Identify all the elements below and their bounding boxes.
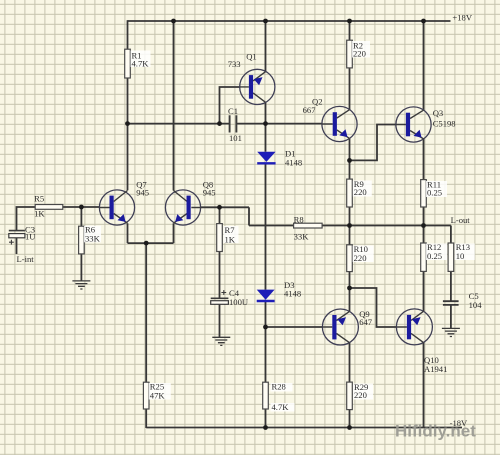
capacitor C5 bbox=[443, 301, 459, 305]
wire -18V bottom rail bbox=[146, 427, 462, 429]
label R25 bbox=[149, 382, 171, 401]
label R10 bbox=[353, 244, 374, 263]
wire R5 right to Q7 base bbox=[63, 206, 100, 208]
wire R6 top bbox=[80, 207, 82, 226]
svg-text:945: 945 bbox=[203, 188, 216, 198]
label C1 bbox=[228, 106, 242, 143]
wire R25 bottom to rail bbox=[145, 409, 147, 428]
wire feedback node jog down bbox=[248, 207, 250, 225]
ground at R6 bbox=[72, 281, 90, 289]
label R9 bbox=[353, 179, 372, 197]
ground at C4 bbox=[212, 337, 230, 345]
svg-text:33K: 33K bbox=[294, 232, 310, 242]
svg-text:647: 647 bbox=[359, 317, 373, 327]
ground at C5 bbox=[442, 328, 460, 336]
svg-text:R28: R28 bbox=[272, 382, 286, 392]
wire Q9 base bbox=[266, 326, 323, 328]
wire R13 bottom to C5 bbox=[450, 271, 452, 301]
svg-text:1K: 1K bbox=[34, 209, 45, 219]
wire rail to Q3 collector bbox=[423, 20, 425, 110]
wire rail to R2 bbox=[349, 20, 351, 40]
wire R12 bottom to Q10 emitter bbox=[423, 271, 425, 311]
wire R10 bottom to Q9 emitter node bbox=[349, 272, 351, 312]
resistor R5 bbox=[35, 205, 63, 210]
svg-text:L-out: L-out bbox=[451, 215, 471, 225]
wire Q10 collector to rail bbox=[423, 343, 425, 429]
label R11 bbox=[426, 180, 447, 198]
wire +18V top rail bbox=[128, 20, 451, 22]
svg-text:1K: 1K bbox=[225, 235, 236, 245]
resistor R29 bbox=[347, 382, 353, 410]
node rail-R28 bbox=[263, 425, 268, 430]
wire emitter join bbox=[128, 242, 174, 244]
label R12 bbox=[426, 242, 447, 261]
wire Q8 base to feedback corner bbox=[201, 206, 249, 208]
svg-text:220: 220 bbox=[354, 187, 367, 197]
svg-text:L-int: L-int bbox=[17, 254, 35, 264]
svg-text:945: 945 bbox=[136, 188, 149, 198]
wire Q2 emitter to R9 bbox=[349, 138, 351, 179]
label Q1 bbox=[228, 52, 257, 70]
wire R29 bottom to rail bbox=[349, 410, 351, 428]
diode D1 bbox=[257, 152, 275, 164]
label C5 bbox=[469, 291, 483, 310]
transistor Q9 bbox=[322, 309, 358, 345]
svg-text:220: 220 bbox=[354, 253, 367, 263]
svg-text:4.7K: 4.7K bbox=[272, 402, 290, 412]
node Q2e-Q3b bbox=[347, 158, 352, 163]
node rail-R29 bbox=[347, 425, 352, 430]
transistor Q8 bbox=[165, 190, 200, 225]
svg-text:220: 220 bbox=[354, 390, 367, 400]
svg-text:0.25: 0.25 bbox=[427, 251, 442, 261]
node Q1-base bbox=[217, 121, 222, 126]
label Q9 bbox=[359, 309, 373, 327]
wire D1 cathode to D3 anode bbox=[265, 163, 267, 289]
wire C1 right to Q2 base bbox=[237, 123, 322, 125]
svg-text:47K: 47K bbox=[150, 391, 166, 401]
svg-text:100U: 100U bbox=[229, 297, 249, 307]
wire R11 bottom to output line bbox=[423, 207, 425, 226]
wire Q8 collector to rail bbox=[173, 20, 175, 190]
wire Q1 base stub bbox=[220, 87, 241, 124]
label R28 bbox=[271, 382, 295, 413]
svg-text:220: 220 bbox=[353, 49, 366, 59]
transistor Q2 bbox=[322, 106, 357, 141]
resistor R8 bbox=[294, 223, 323, 228]
node R5-R6 bbox=[79, 205, 84, 210]
svg-text:733: 733 bbox=[228, 59, 241, 69]
wire R28 bottom to rail bbox=[265, 409, 267, 428]
wire output line left segment to R8 bbox=[249, 225, 294, 227]
svg-text:101: 101 bbox=[229, 133, 242, 143]
svg-text:Hifidiy.net: Hifidiy.net bbox=[395, 422, 476, 441]
node output-R11 bbox=[421, 223, 426, 228]
resistor R12 bbox=[421, 243, 427, 271]
wire R6 bottom to ground bbox=[80, 254, 82, 281]
transistor Q10 bbox=[396, 309, 432, 345]
wire node-A horizontal left (R1 to C1) bbox=[127, 123, 229, 125]
wire R7 bottom to C4 bbox=[219, 252, 221, 299]
wire Q2 emitter node to Q3 base bbox=[350, 125, 397, 161]
label D1 bbox=[285, 149, 302, 168]
svg-text:R7: R7 bbox=[225, 225, 236, 235]
node rail-Q3c bbox=[421, 19, 426, 24]
resistor R25 bbox=[143, 382, 149, 409]
label Q10 bbox=[424, 355, 447, 374]
diode D3 bbox=[257, 290, 275, 301]
wire output line to R10 bbox=[349, 226, 351, 245]
resistor R7 bbox=[217, 224, 223, 252]
label R29 bbox=[353, 382, 373, 400]
wire R1 top from rail bbox=[127, 20, 129, 49]
label C4 bbox=[229, 288, 249, 307]
label R5 bbox=[34, 194, 45, 219]
capacitor C3 bbox=[9, 231, 25, 245]
resistor R2 bbox=[347, 40, 353, 68]
svg-text:667: 667 bbox=[303, 105, 317, 115]
capacitor C1 bbox=[230, 115, 237, 132]
svg-text:Q3: Q3 bbox=[433, 108, 444, 118]
wire R2 to Q2 collector bbox=[349, 68, 351, 110]
label R13 bbox=[455, 242, 475, 261]
wire C3 bottom to L-int bbox=[16, 238, 18, 254]
wire R7 top bbox=[219, 207, 221, 223]
wire output line right segment bbox=[322, 225, 451, 227]
wire Q1 collector down bbox=[265, 102, 267, 123]
label Q8 bbox=[203, 180, 216, 198]
label Q2 bbox=[303, 97, 323, 116]
wire D3 cathode down to Q9-base node and R28 bbox=[265, 301, 267, 382]
svg-text:C1: C1 bbox=[228, 106, 238, 116]
svg-text:4148: 4148 bbox=[285, 158, 302, 168]
node LTP tail bbox=[144, 241, 149, 246]
node output-R9 bbox=[347, 223, 352, 228]
label Q3 bbox=[433, 108, 456, 129]
svg-text:33K: 33K bbox=[85, 234, 101, 244]
wire input corner to C3 bbox=[17, 207, 36, 230]
label Q7 bbox=[136, 180, 149, 198]
svg-text:4148: 4148 bbox=[284, 289, 301, 299]
svg-text:0.25: 0.25 bbox=[427, 188, 442, 198]
wire node-B to D1 anode bbox=[265, 124, 267, 152]
node Q8base-R7 bbox=[217, 205, 222, 210]
node R10-Q10base bbox=[347, 286, 352, 291]
node R1-bottom bbox=[125, 121, 130, 126]
svg-text:10: 10 bbox=[456, 251, 465, 261]
capacitor C4 bbox=[211, 290, 229, 304]
RESISTOR BODIES bbox=[35, 40, 454, 409]
svg-text:1U: 1U bbox=[25, 232, 36, 242]
resistor R11 bbox=[421, 180, 427, 207]
wire L-out corner down to R13 bbox=[450, 226, 452, 244]
svg-text:Q1: Q1 bbox=[246, 52, 257, 62]
resistor R13 bbox=[448, 243, 454, 271]
label D3 bbox=[284, 280, 301, 299]
label C3 bbox=[25, 225, 36, 242]
svg-text:R5: R5 bbox=[34, 194, 44, 204]
wire Q9-base-drive node to Q10 base bbox=[350, 288, 397, 327]
svg-text:104: 104 bbox=[469, 300, 483, 310]
resistor R6 bbox=[79, 226, 85, 254]
label R2 bbox=[352, 41, 370, 59]
svg-text:4.7K: 4.7K bbox=[132, 59, 150, 69]
svg-text:C5198: C5198 bbox=[433, 119, 456, 129]
resistor R9 bbox=[347, 179, 353, 207]
transistor Q1 bbox=[240, 69, 275, 104]
wire R1 bottom to Q7 collector bbox=[127, 78, 129, 190]
transistor Q3 bbox=[396, 107, 431, 142]
node rail-R2 bbox=[347, 19, 352, 24]
wire R9 bottom to output line bbox=[349, 207, 351, 226]
node rail-Q1e bbox=[263, 19, 268, 24]
wire Q9 collector to R29 bbox=[349, 343, 351, 383]
wire C4 to ground bbox=[219, 304, 221, 337]
wire output line to R12 bbox=[423, 226, 425, 244]
resistor R1 bbox=[125, 49, 131, 78]
wire Q1 emitter to rail bbox=[265, 20, 267, 71]
wire tail node to R25 bbox=[145, 243, 147, 382]
node D3-Q9base bbox=[263, 325, 268, 330]
node rail-Q8c bbox=[171, 19, 176, 24]
svg-text:R8: R8 bbox=[294, 215, 304, 225]
label R6 bbox=[84, 225, 101, 244]
label R1 bbox=[131, 51, 151, 69]
resistor R10 bbox=[347, 245, 353, 272]
svg-text:A1941: A1941 bbox=[424, 364, 447, 374]
wire Q3 emitter to R11 bbox=[423, 139, 425, 180]
transistor Q7 bbox=[99, 190, 134, 225]
label R8 bbox=[294, 215, 310, 242]
wire Q8 emitter down bbox=[173, 223, 175, 243]
wire Q7 emitter down bbox=[127, 223, 129, 243]
wire C5 to ground bbox=[450, 305, 452, 329]
svg-text:+18V: +18V bbox=[452, 13, 472, 23]
node B bbox=[263, 121, 268, 126]
resistor R28 bbox=[263, 382, 269, 409]
label R7 bbox=[224, 225, 239, 245]
